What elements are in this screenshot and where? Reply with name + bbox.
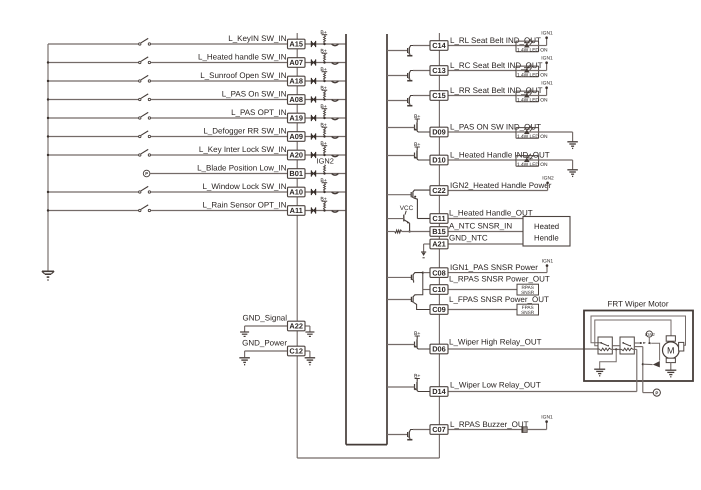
wire - C10 tap to pin [423, 289, 430, 291]
svg-text:L_RL Seat Belt IND_OUT: L_RL Seat Belt IND_OUT [450, 36, 541, 45]
switch S2 (L_Heated handle SW_IN) [139, 57, 151, 64]
svg-text:IGN1: IGN1 [541, 414, 553, 420]
svg-text:L_RPAS Buzzer_OUT: L_RPAS Buzzer_OUT [450, 420, 529, 429]
wire - D10 to indicator lamp [448, 159, 516, 161]
wire - row 7 pin box to MICOM [305, 154, 346, 156]
wire - lamp to IGN1 feed [539, 95, 547, 97]
junction - row 9 pull-up [323, 191, 325, 193]
transistor Q-C08 PAS power driver [387, 273, 423, 283]
pin A11 (BCM connector) [288, 206, 306, 216]
wire - C14 to indicator lamp [448, 45, 516, 47]
svg-text:C15: C15 [432, 91, 446, 100]
pin C12 GND_Power [288, 346, 306, 356]
junction on ground bus row 7 [47, 154, 49, 156]
suppressor diode D9 row 9 input clamp [311, 189, 316, 195]
junction on ground bus row 9 [47, 191, 49, 193]
label IGN2_Heated Handle Power [450, 181, 552, 190]
svg-text:1.4W LED ON: 1.4W LED ON [517, 98, 548, 104]
svg-text:Hendle: Hendle [534, 233, 559, 242]
junction - row 5 pull-up [323, 117, 325, 119]
wire - connector bottom link [297, 457, 439, 459]
svg-text:C14: C14 [432, 41, 446, 50]
label L_RC Seat Belt IND_OUT [450, 61, 543, 70]
transistor Q-VCC NTC bias [387, 211, 410, 232]
svg-text:A07: A07 [289, 58, 303, 67]
svg-text:IGN1: IGN1 [541, 81, 553, 87]
wire - A21 to NTC ground stub [424, 244, 430, 252]
wire - park node to arm [643, 363, 653, 365]
pin A08 (BCM connector) [288, 95, 306, 105]
label L_Defogger RR SW_IN [203, 127, 286, 136]
svg-text:L_PAS On SW_IN: L_PAS On SW_IN [222, 90, 287, 99]
svg-text:1.4W LED ON: 1.4W LED ON [517, 134, 548, 140]
junction - C22 emitter node [414, 196, 416, 198]
suppressor diode D3 row 3 input clamp [311, 78, 316, 84]
junction - row 10 pull-up [323, 209, 325, 211]
label L_Sunroof Open SW_IN [200, 71, 286, 80]
transistor Q-C15 low-side driver [387, 96, 430, 106]
resistor R4 pull-up row 4 [324, 91, 326, 99]
svg-text:A21: A21 [432, 240, 446, 249]
label L_RPAS SNSR Power_OUT [449, 275, 550, 284]
pin B15 (BCM connector) [430, 227, 448, 237]
B+ flag row 1 [320, 30, 327, 36]
relay RLY2 wiper low [620, 337, 634, 354]
svg-text:FRT Wiper Motor: FRT Wiper Motor [607, 300, 668, 309]
pin A22 GND_Signal [288, 321, 306, 331]
svg-text:B01: B01 [289, 169, 303, 178]
label VCC [400, 205, 414, 212]
wire - node down to Q-C09 [417, 290, 423, 295]
label L_KeyIN SW_IN [228, 34, 286, 43]
label L_RL Seat Belt IND_OUT [450, 36, 541, 45]
wire hop - row 2 filter arc [332, 63, 339, 65]
wire - row 6 pin box to MICOM [305, 136, 346, 138]
B+ flag row 10 [320, 196, 327, 202]
ground - D09 lamp return [567, 142, 578, 149]
coil - RLY2 [622, 348, 633, 351]
wire - row 1 from ground bus to switch [48, 43, 139, 45]
svg-text:L_Heated Handle_OUT: L_Heated Handle_OUT [449, 209, 533, 218]
pin A10 (BCM connector) [288, 187, 306, 197]
svg-text:L_RC Seat Belt IND_OUT: L_RC Seat Belt IND_OUT [450, 61, 543, 70]
pin C08 (BCM connector) [430, 268, 448, 278]
wire - bead to IGN1 flag [527, 429, 546, 431]
switch S5 (L_PAS OPT_IN) [139, 112, 151, 119]
wire - motor loop B (relay1 to top brush) [595, 320, 671, 346]
svg-text:A08: A08 [289, 95, 303, 104]
svg-text:GND_Signal: GND_Signal [243, 313, 288, 322]
label L_Wiper High Relay_OUT [449, 338, 542, 347]
label GND_Power [242, 338, 287, 347]
wire - row 4 from ground bus to switch [48, 99, 139, 101]
wire - row 4 pin box to MICOM [305, 99, 346, 101]
label L_RR Seat Belt IND_OUT [450, 86, 543, 95]
indicator LED L_RL Seat Belt IND_OUT (1.4W LED ON) [516, 39, 548, 54]
label IGN1_PAS SNSR Power [450, 263, 538, 272]
switch S9 (L_Window Lock SW_IN) [139, 186, 151, 193]
svg-text:L_Heated handle SW_IN: L_Heated handle SW_IN [198, 53, 287, 62]
motor M - front wiper [663, 342, 680, 359]
ground - power ground left [239, 358, 250, 365]
wire - lamp to ground [539, 160, 573, 169]
svg-text:L_KeyIN SW_IN: L_KeyIN SW_IN [228, 34, 286, 43]
svg-text:A19: A19 [289, 114, 303, 123]
pin C07 (BCM connector) [430, 425, 448, 435]
transistor Q-D09 high-side driver with B+ [387, 114, 430, 132]
pin C22 (BCM connector) [430, 186, 448, 196]
wire - row 3 from ground bus to switch [48, 80, 139, 82]
connector P - blade position park signal [143, 170, 150, 177]
wire - C11 to heated handle unit [448, 218, 523, 220]
junction - row 7 pull-up [323, 154, 325, 156]
resistor R9 pull-up row 9 [324, 183, 326, 191]
ground G1 - left switch common ground [42, 271, 54, 280]
transistor Q-C07 buzzer driver [387, 430, 430, 440]
wire hop - row 9 filter arc [332, 192, 339, 194]
junction - C08 power node [422, 271, 424, 273]
wire - B15 to heated handle unit [448, 231, 523, 233]
wire - lamp to IGN1 feed [539, 45, 547, 47]
svg-text:L_FPAS SNSR Power_OUT: L_FPAS SNSR Power_OUT [449, 295, 549, 304]
svg-text:C07: C07 [432, 425, 446, 434]
brush - motor bottom [666, 358, 675, 362]
flag IGN2 inside motor [645, 331, 655, 344]
svg-text:L_Defogger RR SW_IN: L_Defogger RR SW_IN [203, 127, 286, 136]
ground - D10 lamp return [567, 170, 578, 177]
junction - row 3 pull-up [323, 80, 325, 82]
wire - left connector column [296, 33, 298, 458]
wire - right connector column [438, 33, 440, 458]
switch S6 (L_Defogger RR SW_IN) [139, 131, 151, 138]
indicator LED L_Heated Handle IND_OUT (1.4W LED ON) [516, 153, 548, 168]
wire - D14 to wiper motor [448, 391, 637, 393]
wire - C12 power ground left [245, 351, 288, 357]
wire hop - row 7 filter arc [332, 155, 339, 157]
wire - C08 to IGN1 flag [448, 272, 547, 274]
svg-text:C10: C10 [432, 285, 446, 294]
wire - row 6 switch to pin box [151, 136, 288, 138]
wire - row 6 from ground bus to switch [48, 136, 139, 138]
label L_Wiper Low Relay_OUT [450, 380, 541, 389]
wire - row 4 switch to pin box [151, 99, 288, 101]
svg-text:C12: C12 [289, 347, 303, 356]
junction - row 2 pull-up [323, 61, 325, 63]
pin C11 (BCM connector) [430, 214, 448, 224]
pin C09 (BCM connector) [430, 305, 448, 315]
B+ flag row 4 [320, 85, 327, 91]
wire - park contact to arm pivot [651, 343, 659, 360]
brush - motor right [679, 342, 684, 351]
wire - row 8 P connector to pin box [150, 173, 288, 175]
pin A20 (BCM connector) [288, 150, 306, 160]
svg-text:A15: A15 [289, 40, 303, 49]
suppressor diode D6 row 6 input clamp [311, 133, 316, 139]
svg-text:L_Blade Position Low_IN: L_Blade Position Low_IN [197, 164, 287, 173]
svg-text:A11: A11 [290, 206, 303, 215]
svg-text:A09: A09 [289, 132, 303, 141]
power flag IGN1 for C07 [541, 414, 553, 429]
pin C10 (BCM connector) [430, 285, 448, 295]
park arm wiper [653, 361, 660, 367]
suppressor diode D10 row 10 input clamp [311, 207, 316, 213]
resistor R5 pull-up row 5 [324, 109, 326, 117]
block - FPAS SNSR [517, 304, 539, 315]
svg-text:IGN2: IGN2 [317, 157, 334, 166]
svg-text:L_PAS OPT_IN: L_PAS OPT_IN [231, 108, 287, 117]
brush - motor top [666, 336, 675, 341]
wire - row 1 switch to pin box [151, 43, 288, 45]
label GND_NTC [449, 233, 488, 242]
junction on ground bus row 10 [47, 209, 49, 211]
svg-text:IGN1: IGN1 [541, 31, 553, 37]
label L_Window Lock SW_IN [202, 182, 286, 191]
pin C14 (BCM connector) [430, 41, 448, 51]
svg-text:1.4W LED ON: 1.4W LED ON [517, 162, 548, 168]
svg-text:L_Key Inter Lock SW_IN: L_Key Inter Lock SW_IN [199, 145, 287, 154]
wire - row 3 switch to pin box [151, 80, 288, 82]
wire - row 5 pin box to MICOM [305, 117, 346, 119]
wire - C13 to indicator lamp [448, 70, 516, 72]
svg-text:D09: D09 [432, 128, 446, 137]
resistor R6 pull-up row 6 [324, 128, 326, 136]
svg-text:L_Sunroof Open SW_IN: L_Sunroof Open SW_IN [200, 71, 286, 80]
junction on ground bus row 2 [47, 61, 49, 63]
svg-text:IGN2: IGN2 [542, 176, 554, 182]
indicator LED L_RR Seat Belt IND_OUT (1.4W LED ON) [516, 89, 548, 104]
svg-text:IGN1: IGN1 [541, 56, 553, 62]
transistor Q-C14 low-side driver [387, 46, 430, 56]
pin C15 (BCM connector) [430, 91, 448, 101]
wire - C15 to indicator lamp [448, 95, 516, 97]
relay RLY1 wiper high [598, 337, 612, 354]
junction on ground bus row 5 [47, 117, 49, 119]
ground - motor return [665, 370, 676, 377]
svg-text:GND_NTC: GND_NTC [449, 233, 488, 242]
svg-text:GND_Power: GND_Power [242, 338, 287, 347]
junction - row 6 pull-up [323, 135, 325, 137]
ground - signal ground left [240, 332, 249, 336]
indicator LED L_PAS ON SW IND_OUT (1.4W LED ON) [516, 125, 548, 140]
svg-text:IGN2_Heated Handle Power: IGN2_Heated Handle Power [450, 181, 552, 190]
junction on ground bus row 6 [47, 135, 49, 137]
wire - D06 to wiper motor [448, 348, 600, 350]
switch S10 (L_Rain Sensor OPT_IN) [139, 205, 151, 212]
block U1 MICOM (bottom edge) [346, 444, 387, 446]
svg-text:C13: C13 [432, 66, 446, 75]
transistor Q-D06 wiper high driver [387, 331, 430, 349]
wire - row 2 from ground bus to switch [48, 62, 139, 64]
suppressor diode D1 row 1 input clamp [311, 41, 316, 47]
resistor R1 pull-up row 1 [324, 35, 326, 43]
wire - C10 to RPAS sensor [448, 289, 517, 291]
B+ flag row 2 [320, 48, 327, 54]
wire - left common ground bus vertical [47, 44, 49, 271]
svg-text:C08: C08 [432, 268, 446, 277]
wire hop - row 3 filter arc [332, 81, 339, 83]
ground - relay coil return [594, 369, 605, 376]
label L_PAS ON SW IND_OUT [450, 122, 541, 131]
junction - park common node [642, 363, 644, 365]
wire - C08 node to pin [423, 272, 430, 274]
label L_RPAS Buzzer_OUT [450, 420, 529, 429]
svg-text:A20: A20 [289, 151, 303, 160]
suppressor diode D7 row 7 input clamp [311, 152, 316, 158]
IGN2 flag row 8 [317, 157, 334, 166]
svg-text:L_RR Seat Belt IND_OUT: L_RR Seat Belt IND_OUT [450, 86, 543, 95]
label L_Rain Sensor OPT_IN [202, 201, 286, 210]
wire - park common to P connector [643, 392, 653, 394]
pin D10 (BCM connector) [430, 155, 448, 165]
svg-text:SNSR: SNSR [521, 290, 535, 295]
junction - row 1 pull-up [323, 43, 325, 45]
wire - motor loop A (relay1 to right brush) [591, 316, 686, 345]
suppressor diode D8 row 8 input clamp [311, 170, 316, 176]
svg-text:P: P [655, 390, 658, 395]
svg-text:A10: A10 [289, 188, 303, 197]
wire - RLY2 coil to D14 feed [633, 349, 637, 391]
wire - C07 to buzzer bead [448, 429, 522, 431]
power flag IGN1 for C08 [542, 258, 554, 272]
label L_Blade Position Low_IN [197, 164, 287, 173]
wire - lamp to IGN1 feed [539, 70, 547, 72]
svg-text:L_RPAS SNSR Power_OUT: L_RPAS SNSR Power_OUT [449, 275, 550, 284]
svg-text:L_Heated Handle IND_OUT: L_Heated Handle IND_OUT [450, 150, 550, 159]
label L_Heated handle SW_IN [198, 53, 287, 62]
B+ flag row 3 [320, 67, 327, 73]
svg-text:P: P [145, 171, 148, 176]
block - FRT Wiper Motor enclosure [584, 311, 693, 382]
svg-text:D14: D14 [432, 387, 446, 396]
pin A19 (BCM connector) [288, 113, 306, 123]
pin A07 (BCM connector) [288, 58, 306, 68]
wire - row 1 pin box to MICOM [305, 43, 346, 45]
junction on ground bus row 3 [47, 80, 49, 82]
ground - signal ground right [305, 332, 314, 336]
wire - A22 signal ground right [305, 326, 310, 332]
svg-text:L_PAS ON SW IND_OUT: L_PAS ON SW IND_OUT [450, 122, 541, 131]
power flag IGN2 for C22 [542, 176, 554, 191]
svg-text:B15: B15 [432, 227, 446, 236]
wire - D09 to indicator lamp [448, 131, 516, 133]
B+ flag row 9 [320, 178, 327, 184]
label A_NTC SNSR_IN [449, 222, 512, 231]
pin D14 (BCM connector) [430, 387, 448, 397]
B+ flag row 7 [320, 141, 327, 147]
wire - coil common to ground [600, 349, 617, 368]
transistor Q-C13 low-side driver [387, 71, 430, 81]
wire - row 9 from ground bus to switch [48, 191, 139, 193]
switch S4 (L_PAS On SW_IN) [139, 94, 151, 101]
park contact arrows [643, 342, 650, 344]
junction - row 8 pull-up [323, 172, 325, 174]
wire - row 8 pin box to MICOM [305, 173, 346, 175]
pin A18 (BCM connector) [288, 76, 306, 86]
svg-text:C22: C22 [432, 186, 446, 195]
svg-text:A18: A18 [289, 77, 303, 86]
indicator LED L_RC Seat Belt IND_OUT (1.4W LED ON) [516, 64, 548, 79]
label L_PAS OPT_IN [231, 108, 287, 117]
svg-text:L_Wiper High Relay_OUT: L_Wiper High Relay_OUT [449, 338, 542, 347]
switch S3 (L_Sunroof Open SW_IN) [139, 75, 151, 82]
suppressor diode D4 row 4 input clamp [311, 96, 316, 102]
label L_Heated Handle_OUT [449, 209, 533, 218]
wire - row 5 switch to pin box [151, 117, 288, 119]
label FRT Wiper Motor [607, 300, 668, 309]
ferrite bead FB1 on buzzer line [522, 426, 527, 432]
ground - power ground right [305, 358, 316, 365]
wire - row 2 pin box to MICOM [305, 62, 346, 64]
label L_PAS On SW_IN [222, 90, 287, 99]
wire - lamp to ground [539, 132, 573, 141]
svg-text:A_NTC SNSR_IN: A_NTC SNSR_IN [449, 222, 512, 231]
label L_Key Inter Lock SW_IN [199, 145, 287, 154]
switch S1 (L_KeyIN SW_IN) [139, 38, 151, 45]
svg-text:A22: A22 [289, 322, 303, 331]
relay RLY2 contact [622, 342, 631, 347]
transistor Q-D14 wiper low driver [387, 373, 430, 391]
svg-text:SNSR: SNSR [521, 310, 535, 315]
wire - A21 to heated handle unit [448, 243, 523, 245]
resistor R7 pull-up row 7 [324, 146, 326, 154]
svg-text:L_Window Lock SW_IN: L_Window Lock SW_IN [202, 182, 286, 191]
power flag IGN1 for C13 [541, 56, 553, 71]
wire - RLY2 to park contact line [634, 342, 642, 344]
wire - row 5 from ground bus to switch [48, 117, 139, 119]
svg-text:L_Rain Sensor OPT_IN: L_Rain Sensor OPT_IN [202, 201, 286, 210]
coil - RLY1 [600, 348, 611, 351]
wire hop - row 10 filter arc [332, 211, 339, 213]
wire - power node down to C10 [422, 273, 424, 290]
svg-text:C09: C09 [432, 305, 446, 314]
wire - row 10 from ground bus to switch [48, 210, 139, 212]
wire - row 9 pin box to MICOM [305, 191, 346, 193]
pin D06 (BCM connector) [430, 344, 448, 354]
transistor Q-C09 FPAS power driver [387, 295, 430, 310]
block - RPAS SNSR [517, 284, 539, 295]
relay RLY1 contact [600, 342, 609, 347]
resistor R8 pull-up row 8 [324, 165, 326, 173]
label L_FPAS SNSR Power_OUT [449, 295, 549, 304]
junction - row 4 pull-up [323, 98, 325, 100]
svg-text:M: M [667, 346, 675, 356]
wire - C12 power ground right [305, 351, 310, 357]
wire hop - row 4 filter arc [332, 100, 339, 102]
wire - row 2 switch to pin box [151, 62, 288, 64]
block U1 MICOM (right edge) [386, 34, 388, 445]
power flag IGN1 for C15 [541, 81, 553, 96]
wire - B15 sensor input with series resistor [387, 230, 430, 233]
junction - relay coil common [615, 348, 617, 350]
pin A21 (BCM connector) [430, 239, 448, 249]
wire hop - row 8 filter arc [332, 174, 339, 176]
wire - row 7 switch to pin box [151, 154, 288, 156]
resistor R10 pull-up row 10 [324, 202, 326, 210]
wire - coil link RLY1 to RLY2 [611, 348, 622, 350]
resistor R3 pull-up row 3 [324, 72, 326, 80]
B+ flag row 5 [320, 104, 327, 110]
wire - row 10 pin box to MICOM [305, 210, 346, 212]
connector P - wiper park signal out [653, 389, 660, 396]
junction on ground bus row 4 [47, 98, 49, 100]
pin A09 (BCM connector) [288, 132, 306, 142]
svg-text:1.4W LED ON: 1.4W LED ON [517, 73, 548, 79]
wire - C09 to FPAS sensor [448, 309, 517, 311]
block U1 MICOM (left edge) [345, 34, 347, 445]
wire - C22 node down to C11 output [417, 218, 430, 220]
wire hop - row 6 filter arc [332, 137, 339, 139]
wire - row 9 switch to pin box [151, 191, 288, 193]
